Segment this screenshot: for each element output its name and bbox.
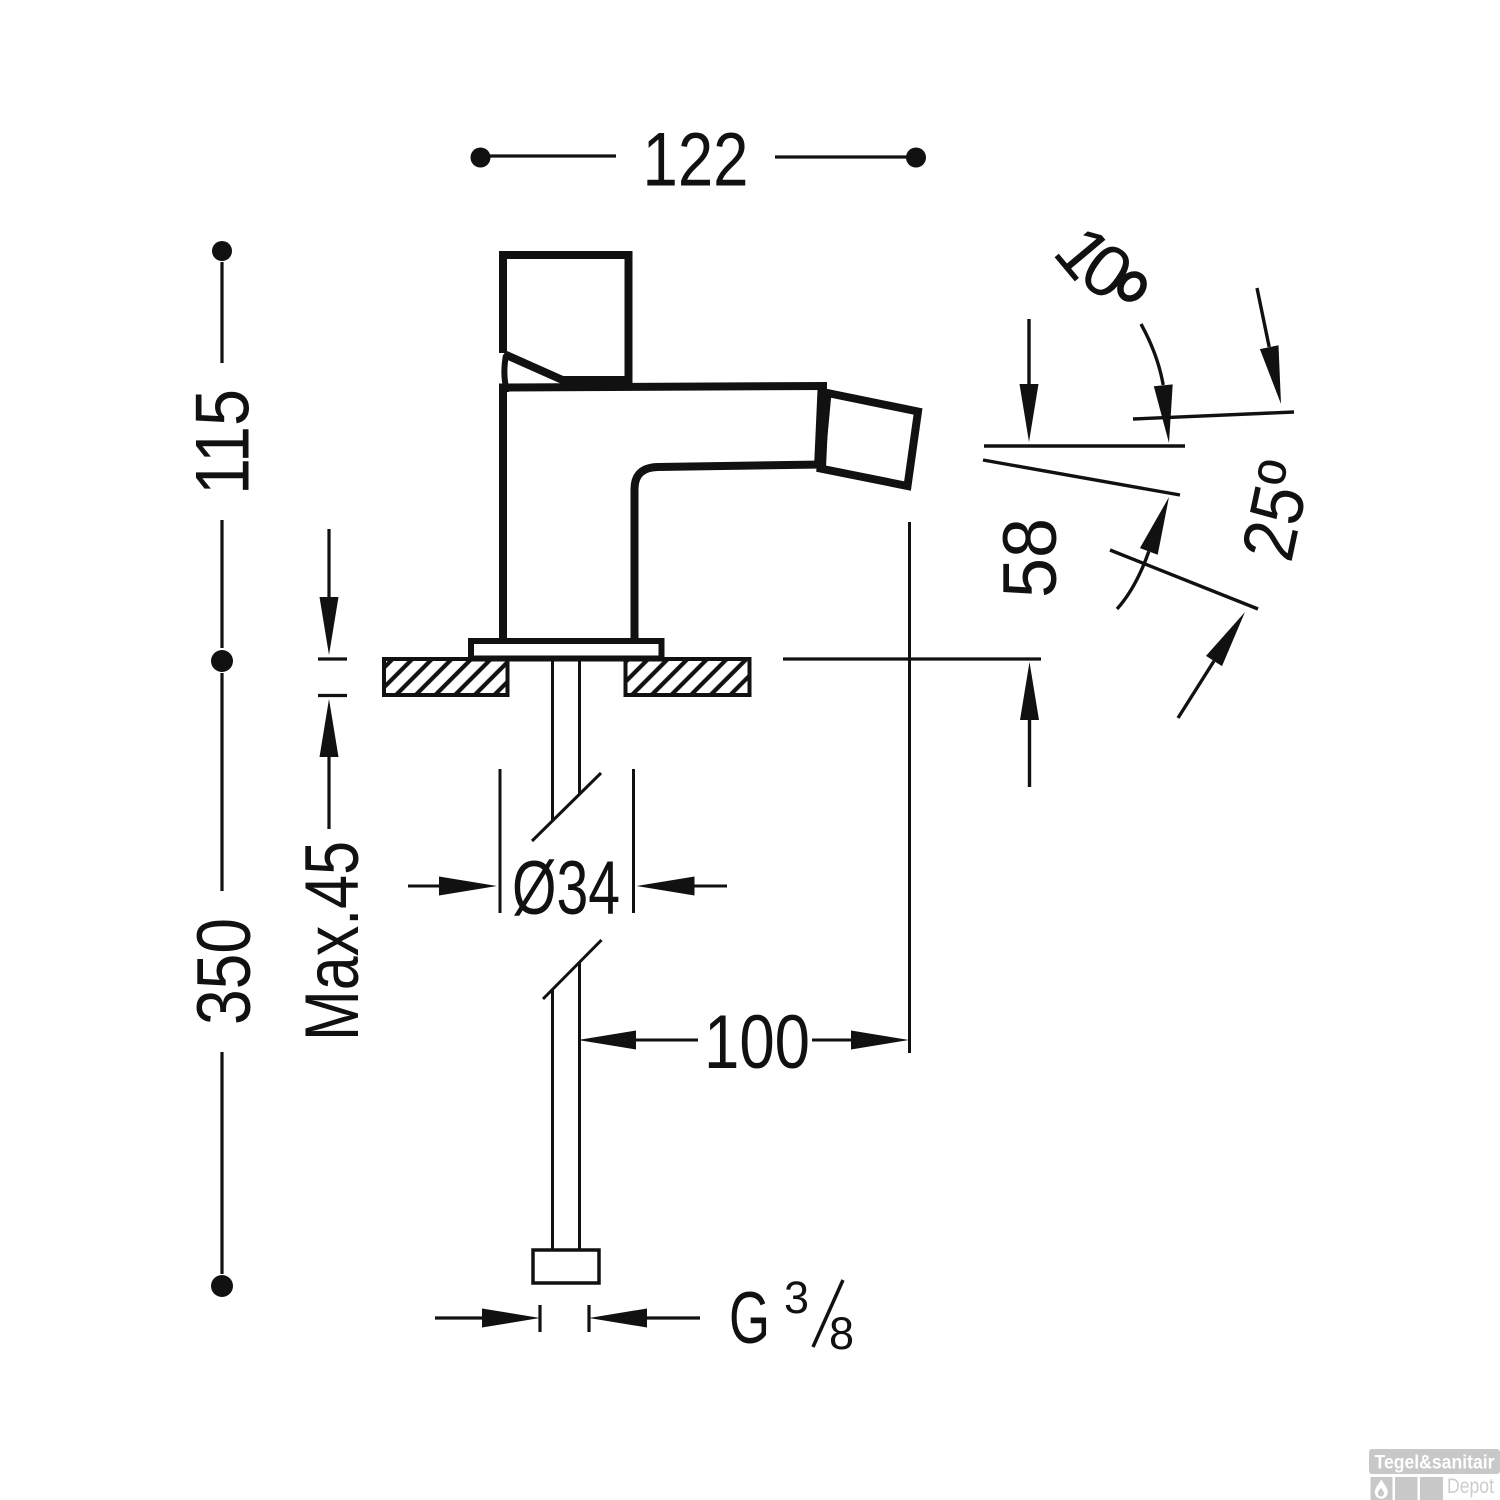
arrow 58 up (1020, 662, 1039, 720)
shaft left (636, 1039, 698, 1042)
spout end handle piece (821, 393, 919, 486)
extension line right (632, 769, 635, 913)
pipe upper right (578, 659, 581, 796)
svg-text:100: 100 (704, 1000, 810, 1085)
svg-text:122: 122 (643, 118, 749, 203)
wire max45 upper shaft (327, 529, 330, 599)
shaft left (435, 1316, 482, 1319)
shaft right (694, 885, 727, 888)
body right edge and spout underside (635, 465, 823, 642)
node dot top (212, 241, 232, 261)
arrow g38 right (589, 1309, 647, 1328)
arrow shaft slanted (1257, 288, 1269, 347)
tick max45 bottom (318, 694, 347, 697)
body top line (499, 386, 827, 388)
node dot 122 left (471, 148, 491, 168)
arrow d34 right (637, 877, 695, 896)
wire 115 upper (220, 262, 223, 363)
logo square 2 (1395, 1477, 1418, 1500)
arrow 100 right (851, 1031, 909, 1050)
logo drop icon (1375, 1480, 1388, 1499)
fraction slash (813, 1280, 843, 1347)
spout level line (984, 444, 1185, 447)
svg-text:G: G (729, 1278, 770, 1359)
reference arm upper right (1133, 412, 1294, 419)
svg-text:350: 350 (182, 918, 267, 1025)
lever pivot arc (504, 355, 509, 389)
arrow d34 left (439, 877, 497, 896)
svg-text:58: 58 (988, 518, 1073, 598)
pipe break slash 2 (543, 940, 602, 999)
counter reference line right (783, 657, 1041, 660)
arrow shaft down (1027, 319, 1030, 386)
shaft right (812, 1039, 852, 1042)
wire 122 left (488, 154, 616, 157)
arrow shaft up (1028, 718, 1031, 787)
tick right (587, 1305, 590, 1332)
base flange (471, 641, 662, 659)
handle thick bottom bar (562, 376, 631, 387)
shaft right (647, 1316, 700, 1319)
arrow 10deg arc (1154, 384, 1173, 443)
wire max45 lower shaft (327, 756, 330, 829)
shaft left (408, 885, 441, 888)
arrow max45 up (320, 699, 339, 757)
spout incline line 10deg (983, 460, 1180, 495)
arrow 58 down (1020, 384, 1039, 442)
wire 350 lower (220, 1052, 223, 1274)
body left edge (499, 384, 507, 641)
extension line left (499, 769, 502, 913)
node dot 122 right (906, 148, 926, 168)
svg-text:Tegel&sanitair: Tegel&sanitair (1375, 1453, 1496, 1474)
logo band (1369, 1449, 1500, 1474)
pipe end nut (533, 1250, 599, 1283)
node dot middle (211, 650, 233, 672)
node dot bottom (211, 1275, 233, 1297)
arrow 25deg up to spout line (1140, 497, 1169, 555)
svg-text:Depot: Depot (1447, 1475, 1494, 1498)
arrow max45 down (320, 597, 339, 655)
arc arrow shaft 25 (1117, 551, 1149, 609)
pipe break slash 1 (532, 773, 601, 841)
arm 25deg (1110, 550, 1258, 609)
label 10 deg (1039, 211, 1149, 316)
pipe lower right (578, 962, 581, 1250)
arrow shaft lower (1178, 661, 1214, 718)
wire 122 right (775, 155, 908, 158)
wire 350 upper (220, 673, 223, 891)
extension line vertical (908, 522, 911, 1053)
svg-text:Max.45: Max.45 (290, 841, 375, 1041)
counter right plate (626, 659, 750, 695)
arrow g38 left (482, 1309, 540, 1328)
pipe lower left (551, 990, 554, 1250)
handle diagonal (504, 354, 567, 382)
svg-text:115: 115 (181, 389, 266, 495)
arrow 25deg lower (1206, 612, 1245, 666)
counter left plate (384, 659, 508, 695)
handle block outline (503, 255, 629, 384)
svg-text:Ø34: Ø34 (512, 846, 620, 931)
pipe upper left (551, 659, 554, 822)
svg-text:3: 3 (784, 1272, 809, 1323)
tick max45 top (318, 657, 347, 660)
arrow 100 left (578, 1031, 636, 1050)
spout joint bar (820, 390, 824, 468)
arrow 10deg slanted (1260, 345, 1281, 404)
wire 115 lower (220, 520, 223, 648)
svg-text:8: 8 (829, 1308, 854, 1359)
logo square 1 (1371, 1477, 1393, 1500)
logo square 3 (1420, 1477, 1443, 1500)
tick left (538, 1305, 541, 1332)
arc arrow shaft (1141, 324, 1163, 385)
